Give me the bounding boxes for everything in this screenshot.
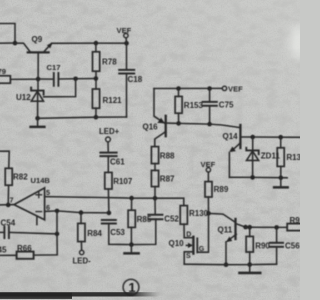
svg-text:C54: C54 [1, 218, 16, 227]
wire Q9 emitter to VEF rail [52, 42, 127, 44]
svg-text:R121: R121 [103, 96, 123, 105]
svg-text:VEF: VEF [228, 85, 243, 94]
wire gate from node [198, 213, 209, 252]
resistor R107 [105, 172, 112, 213]
circled number 1 [123, 279, 139, 295]
svg-text:79: 79 [0, 67, 6, 76]
op-amp U14B [14, 188, 45, 225]
svg-text:R66: R66 [17, 244, 32, 253]
svg-text:R91: R91 [290, 216, 301, 225]
svg-text:C18: C18 [128, 75, 143, 84]
capacitor C61 [100, 153, 116, 173]
terminal VEF mid [206, 168, 210, 182]
transistor Q9 [28, 42, 53, 79]
svg-text:Q9: Q9 [32, 35, 43, 44]
wire op-amp output [0, 204, 14, 206]
node C75 top [207, 86, 212, 91]
resistor R78 [93, 43, 100, 78]
svg-text:R82: R82 [13, 173, 28, 182]
transistor Q16 [154, 89, 179, 147]
resistor R130 [180, 206, 187, 238]
node R78/R121/C17 [94, 76, 99, 81]
svg-text:R89: R89 [214, 185, 229, 194]
capacitor C53 [102, 220, 132, 245]
node R153 bottom [176, 121, 181, 126]
bottom dark bar [0, 292, 160, 296]
svg-text:R84: R84 [87, 229, 102, 238]
wire left edge to node [0, 42, 15, 44]
wire U12 cathode loop [44, 79, 76, 97]
resistor R87 [151, 170, 158, 198]
svg-text:C61: C61 [110, 157, 125, 166]
node VEF top [124, 41, 129, 46]
svg-text:C52: C52 [164, 215, 179, 224]
node ground mid [129, 242, 134, 247]
node output/R82 [6, 203, 11, 208]
svg-text:R132: R132 [286, 153, 300, 162]
wire top-left loop [0, 24, 15, 44]
node R87 bottom [153, 196, 158, 201]
svg-text:R90: R90 [255, 241, 270, 250]
wire feedback vertical [34, 211, 58, 255]
svg-text:LED-: LED- [73, 256, 92, 265]
node ZD11 bottom [250, 175, 255, 180]
node R90 top [247, 225, 252, 230]
transistor Q14 [229, 125, 253, 177]
ground mid [125, 245, 139, 254]
resistor R89 [205, 182, 212, 214]
svg-text:R153: R153 [184, 101, 204, 110]
wire OVEF rail [154, 87, 222, 89]
wire bottom rail U12-R121-C18 [38, 117, 127, 118]
svg-text:Q10: Q10 [169, 239, 185, 248]
wire node to Q9 collector [15, 43, 30, 51]
node junction at Q9 collector branch [13, 41, 18, 46]
svg-text:C17: C17 [47, 63, 61, 72]
mosfet Q10 [184, 237, 197, 264]
svg-text:R88: R88 [160, 152, 175, 161]
svg-text:C75: C75 [219, 101, 234, 110]
node R121 bottom rail [94, 115, 99, 120]
capacitor C17 [38, 73, 96, 86]
svg-text:Q11: Q11 [218, 225, 233, 234]
resistor R91 [287, 224, 302, 231]
svg-text:LED+: LED+ [99, 127, 120, 136]
svg-text:C53: C53 [110, 228, 125, 237]
svg-text:R78: R78 [102, 58, 117, 67]
resistor R153 [175, 89, 182, 124]
wire base rail Q16 to Q14 [179, 123, 240, 127]
node feedback C54/R66 [55, 209, 60, 214]
wire pin5 rail [45, 197, 184, 206]
node C17/U12 cathode loop [73, 77, 78, 82]
wire collector rail right [253, 136, 300, 138]
terminal VEF top [124, 33, 128, 43]
svg-text:G: G [199, 246, 205, 253]
resistor R66 [0, 252, 34, 259]
node Q11 emitter rail [224, 262, 229, 267]
svg-text:C56: C56 [285, 242, 300, 251]
resistor R84 [78, 213, 85, 251]
resistor R88 [151, 147, 158, 171]
svg-text:5: 5 [46, 188, 50, 197]
ground bottom right [240, 265, 261, 273]
ground right [274, 178, 288, 188]
svg-text:Q16: Q16 [143, 123, 159, 132]
node R132 top [278, 135, 283, 140]
wire pin6 rail [45, 211, 109, 213]
terminal VEF right [222, 86, 226, 90]
svg-text:U14B: U14B [31, 176, 51, 185]
capacitor C56 [270, 227, 283, 264]
node U12 anode / ground [35, 116, 40, 121]
wire bottom rail [184, 263, 276, 266]
node R79/C17/U12/Q9 [36, 77, 41, 82]
resistor R85 [128, 198, 135, 245]
zener diode ZD11 [246, 137, 258, 177]
node R153 top [176, 86, 181, 91]
terminal LED+ [106, 137, 111, 151]
svg-text:45: 45 [0, 246, 7, 255]
svg-text:VEF: VEF [201, 160, 216, 169]
node R85 top [129, 196, 134, 201]
terminal LED- [80, 250, 84, 254]
wire collector rail to R91 [246, 226, 288, 228]
svg-text:R107: R107 [113, 177, 133, 186]
node R84 top [79, 210, 84, 215]
node C54/feedback [55, 232, 60, 237]
white paper highlight right edge [290, 25, 306, 59]
node C56 top [274, 225, 279, 230]
capacitor C52 [131, 198, 162, 244]
node C75 bottom [207, 122, 212, 127]
node R89/R130/gate [206, 211, 211, 216]
transistor Q11 [209, 213, 246, 264]
ground under U12 [31, 118, 45, 127]
node R78 top [94, 41, 99, 46]
node R132 bottom [279, 175, 284, 180]
node Q11 collector [243, 225, 248, 230]
svg-text:R130: R130 [189, 209, 209, 218]
svg-text:U12: U12 [16, 93, 31, 102]
svg-text:Q14: Q14 [223, 132, 239, 141]
resistor R90 [246, 227, 253, 264]
wire zener bottom rail [229, 176, 287, 179]
svg-text:D: D [186, 232, 191, 239]
capacitor C75 [203, 89, 217, 125]
resistor R79 [0, 76, 38, 83]
node R90 bottom [247, 262, 252, 267]
capacitor C18 [119, 43, 134, 117]
zener diode U12 [31, 79, 43, 118]
resistor R121 [92, 79, 99, 118]
node ZD11 top [250, 135, 255, 140]
resistor R132 [277, 137, 284, 178]
svg-text:7: 7 [10, 196, 14, 205]
svg-text:R87: R87 [160, 175, 175, 184]
svg-text:S: S [186, 253, 191, 260]
node C53 top [107, 211, 112, 216]
svg-text:VEF: VEF [117, 26, 132, 35]
capacitor C54 [0, 227, 57, 239]
resistor R82 [0, 151, 12, 205]
